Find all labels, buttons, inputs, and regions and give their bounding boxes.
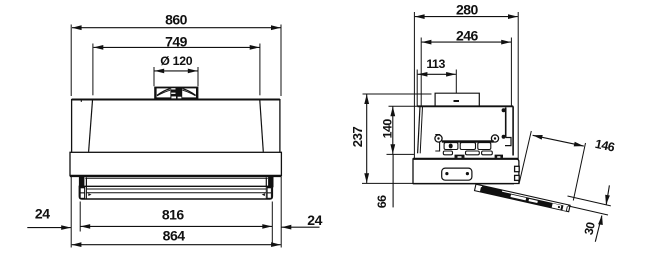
svg-text:860: 860 [165, 12, 188, 28]
svg-text:749: 749 [165, 33, 188, 49]
dimension 113 line [418, 73, 456, 75]
dimension 113 arrow right [446, 72, 456, 77]
side view: dimension 280 extension line left [413, 12, 415, 160]
side view: bottom band bottom edge [413, 183, 514, 185]
dimension 864 arrow right [271, 242, 281, 247]
dimension D120 extension line left [153, 67, 155, 86]
dimension 816 arrow right [262, 224, 272, 229]
dimension 237 line [366, 94, 368, 183]
dimension 246 line [422, 41, 511, 43]
side view: body right inner step [505, 138, 511, 146]
svg-text:140: 140 [380, 119, 394, 139]
side view: body right edge outer [512, 106, 514, 155]
dimension 816 extension line left [79, 202, 81, 232]
side view: body top edge [418, 105, 514, 107]
side view: duct spigot [435, 93, 479, 106]
svg-text:Ø 120: Ø 120 [160, 54, 192, 68]
dimension 30 arrow upper with tail [606, 185, 609, 204]
side view: dimension 237/66 bottom extension line [362, 182, 413, 184]
side view: dimension 113 extension line left [416, 70, 418, 107]
side view: handle dot right [466, 172, 469, 175]
dimension 66 line [392, 154, 394, 207]
dimension 24 right line [282, 226, 320, 228]
dimension 113 arrow left [418, 72, 428, 77]
front view: recess right bracket [266, 177, 273, 188]
side view: bottom band top thick edge [413, 158, 519, 160]
front view: canopy right slant line [260, 100, 264, 152]
dimension 237 arrow top [364, 94, 369, 104]
dimension 860 arrow left [72, 25, 82, 30]
side view: body left edge inner [420, 106, 422, 153]
front view: pull-out visor [79, 186, 272, 199]
dimension 816 line [81, 225, 273, 227]
side view: filter row 1 dot [449, 144, 453, 149]
svg-text:24: 24 [307, 212, 322, 228]
svg-text:66: 66 [375, 195, 389, 208]
svg-text:816: 816 [162, 206, 185, 222]
dimension 816 arrow left [80, 224, 90, 229]
dimension 140 line [392, 107, 394, 155]
dimension 146 arrow left [533, 135, 543, 140]
dimension 749 arrow right [250, 45, 260, 50]
front view: extension line left upper (860) [70, 25, 72, 97]
dimension D120 extension line right [197, 67, 199, 86]
svg-text:864: 864 [163, 228, 186, 244]
side view: left inner bracket [435, 135, 439, 151]
dimension 749 arrow left [94, 45, 104, 50]
front view: extension line right upper (860) [280, 25, 282, 97]
dimension D120 arrow left [154, 69, 164, 74]
side view: body left edge outer [418, 106, 420, 153]
side view: open visor panel (tilted) [475, 184, 571, 211]
dimension 24 left arrow [61, 225, 71, 230]
side view: body right inner panel line [505, 108, 507, 138]
dimension 749 extension line right [259, 44, 261, 96]
dimension 749 extension line left [92, 44, 94, 96]
svg-text:280: 280 [456, 1, 479, 17]
side view: dimension 113 extension line right [455, 70, 457, 100]
side view: clip bottom on right panel [502, 135, 506, 139]
dimension 146 extension line left [519, 131, 531, 184]
dimension 860 arrow right [271, 25, 281, 30]
front view: recess strip top line [85, 177, 267, 179]
side view: dimension 246 extension line right [510, 38, 512, 106]
side view: dimension 237 top extension line [363, 93, 432, 95]
side view: screw right [491, 135, 498, 142]
svg-text:24: 24 [35, 205, 50, 221]
front view: canopy top notch [80, 100, 82, 102]
dimension 816 extension line right [271, 202, 273, 247]
side view: handle dot left [445, 172, 448, 175]
dimension 30 extension line lower [568, 206, 608, 215]
front view: extension line left lower (864) [70, 177, 72, 248]
side view: foot left [455, 155, 465, 158]
side view: screw left [435, 135, 442, 142]
side view: handle recess [442, 168, 472, 180]
side view: duct centre mark [454, 100, 460, 102]
front view: extension line right lower (864) [280, 177, 282, 248]
front view: lower band bottom thick edge [70, 175, 281, 177]
dimension 864 arrow left [72, 242, 82, 247]
svg-text:237: 237 [350, 127, 365, 148]
side view: filter housing top bar [442, 140, 494, 142]
dimension D120 line [154, 70, 197, 72]
side view: right edge tab lower [515, 175, 520, 180]
side view: dimension 280 extension line right [517, 12, 519, 160]
side view: filter row 2 [443, 151, 492, 155]
side view: foot right [495, 155, 503, 158]
side view: right edge tab upper [515, 166, 520, 171]
front view: canopy left edge [71, 99, 73, 152]
dimension 749 line [94, 46, 260, 48]
side view: dimension 140 bottom extension line [387, 153, 415, 155]
front view: duct spigot with damper [154, 87, 198, 100]
dimension 237 arrow bottom [364, 173, 369, 183]
dimension 280 arrow right [508, 14, 518, 19]
dimension 140 arrow bottom [390, 144, 395, 154]
svg-text:113: 113 [426, 57, 445, 71]
front view: canopy left slant line [89, 100, 93, 152]
dimension 280 arrow left [415, 14, 425, 19]
dimension 280 line [415, 16, 518, 18]
dimension D120 arrow right [188, 69, 198, 74]
dimension 246 arrow right [501, 40, 511, 45]
front view: canopy top edge [72, 98, 280, 100]
side view: bottom band [413, 159, 519, 184]
front view: lower band [70, 152, 281, 175]
dimension 24 right arrow [282, 225, 292, 230]
dimension 146 line [533, 135, 584, 146]
front view: canopy right edge [279, 99, 281, 152]
side view: dimension 140 top extension line [389, 105, 419, 107]
dimension 30 arrow lower with tail [595, 216, 602, 242]
side view: clip top on right panel [502, 108, 506, 112]
side view: dimension 246 extension line left [420, 38, 422, 106]
dimension 30 extension line upper [568, 196, 611, 206]
front view: recess left bracket [79, 177, 87, 188]
dimension 864 line [72, 244, 281, 246]
dimension 140 arrow top [390, 106, 395, 116]
dimension 246 arrow left [422, 40, 432, 45]
dimension 860 line [72, 27, 281, 29]
svg-text:246: 246 [456, 28, 479, 44]
dimension 24 left line [27, 227, 71, 229]
dimension 146 extension line right [573, 143, 585, 201]
side view: filter row 1 [444, 143, 491, 150]
dimension 146 arrow right [574, 142, 584, 147]
